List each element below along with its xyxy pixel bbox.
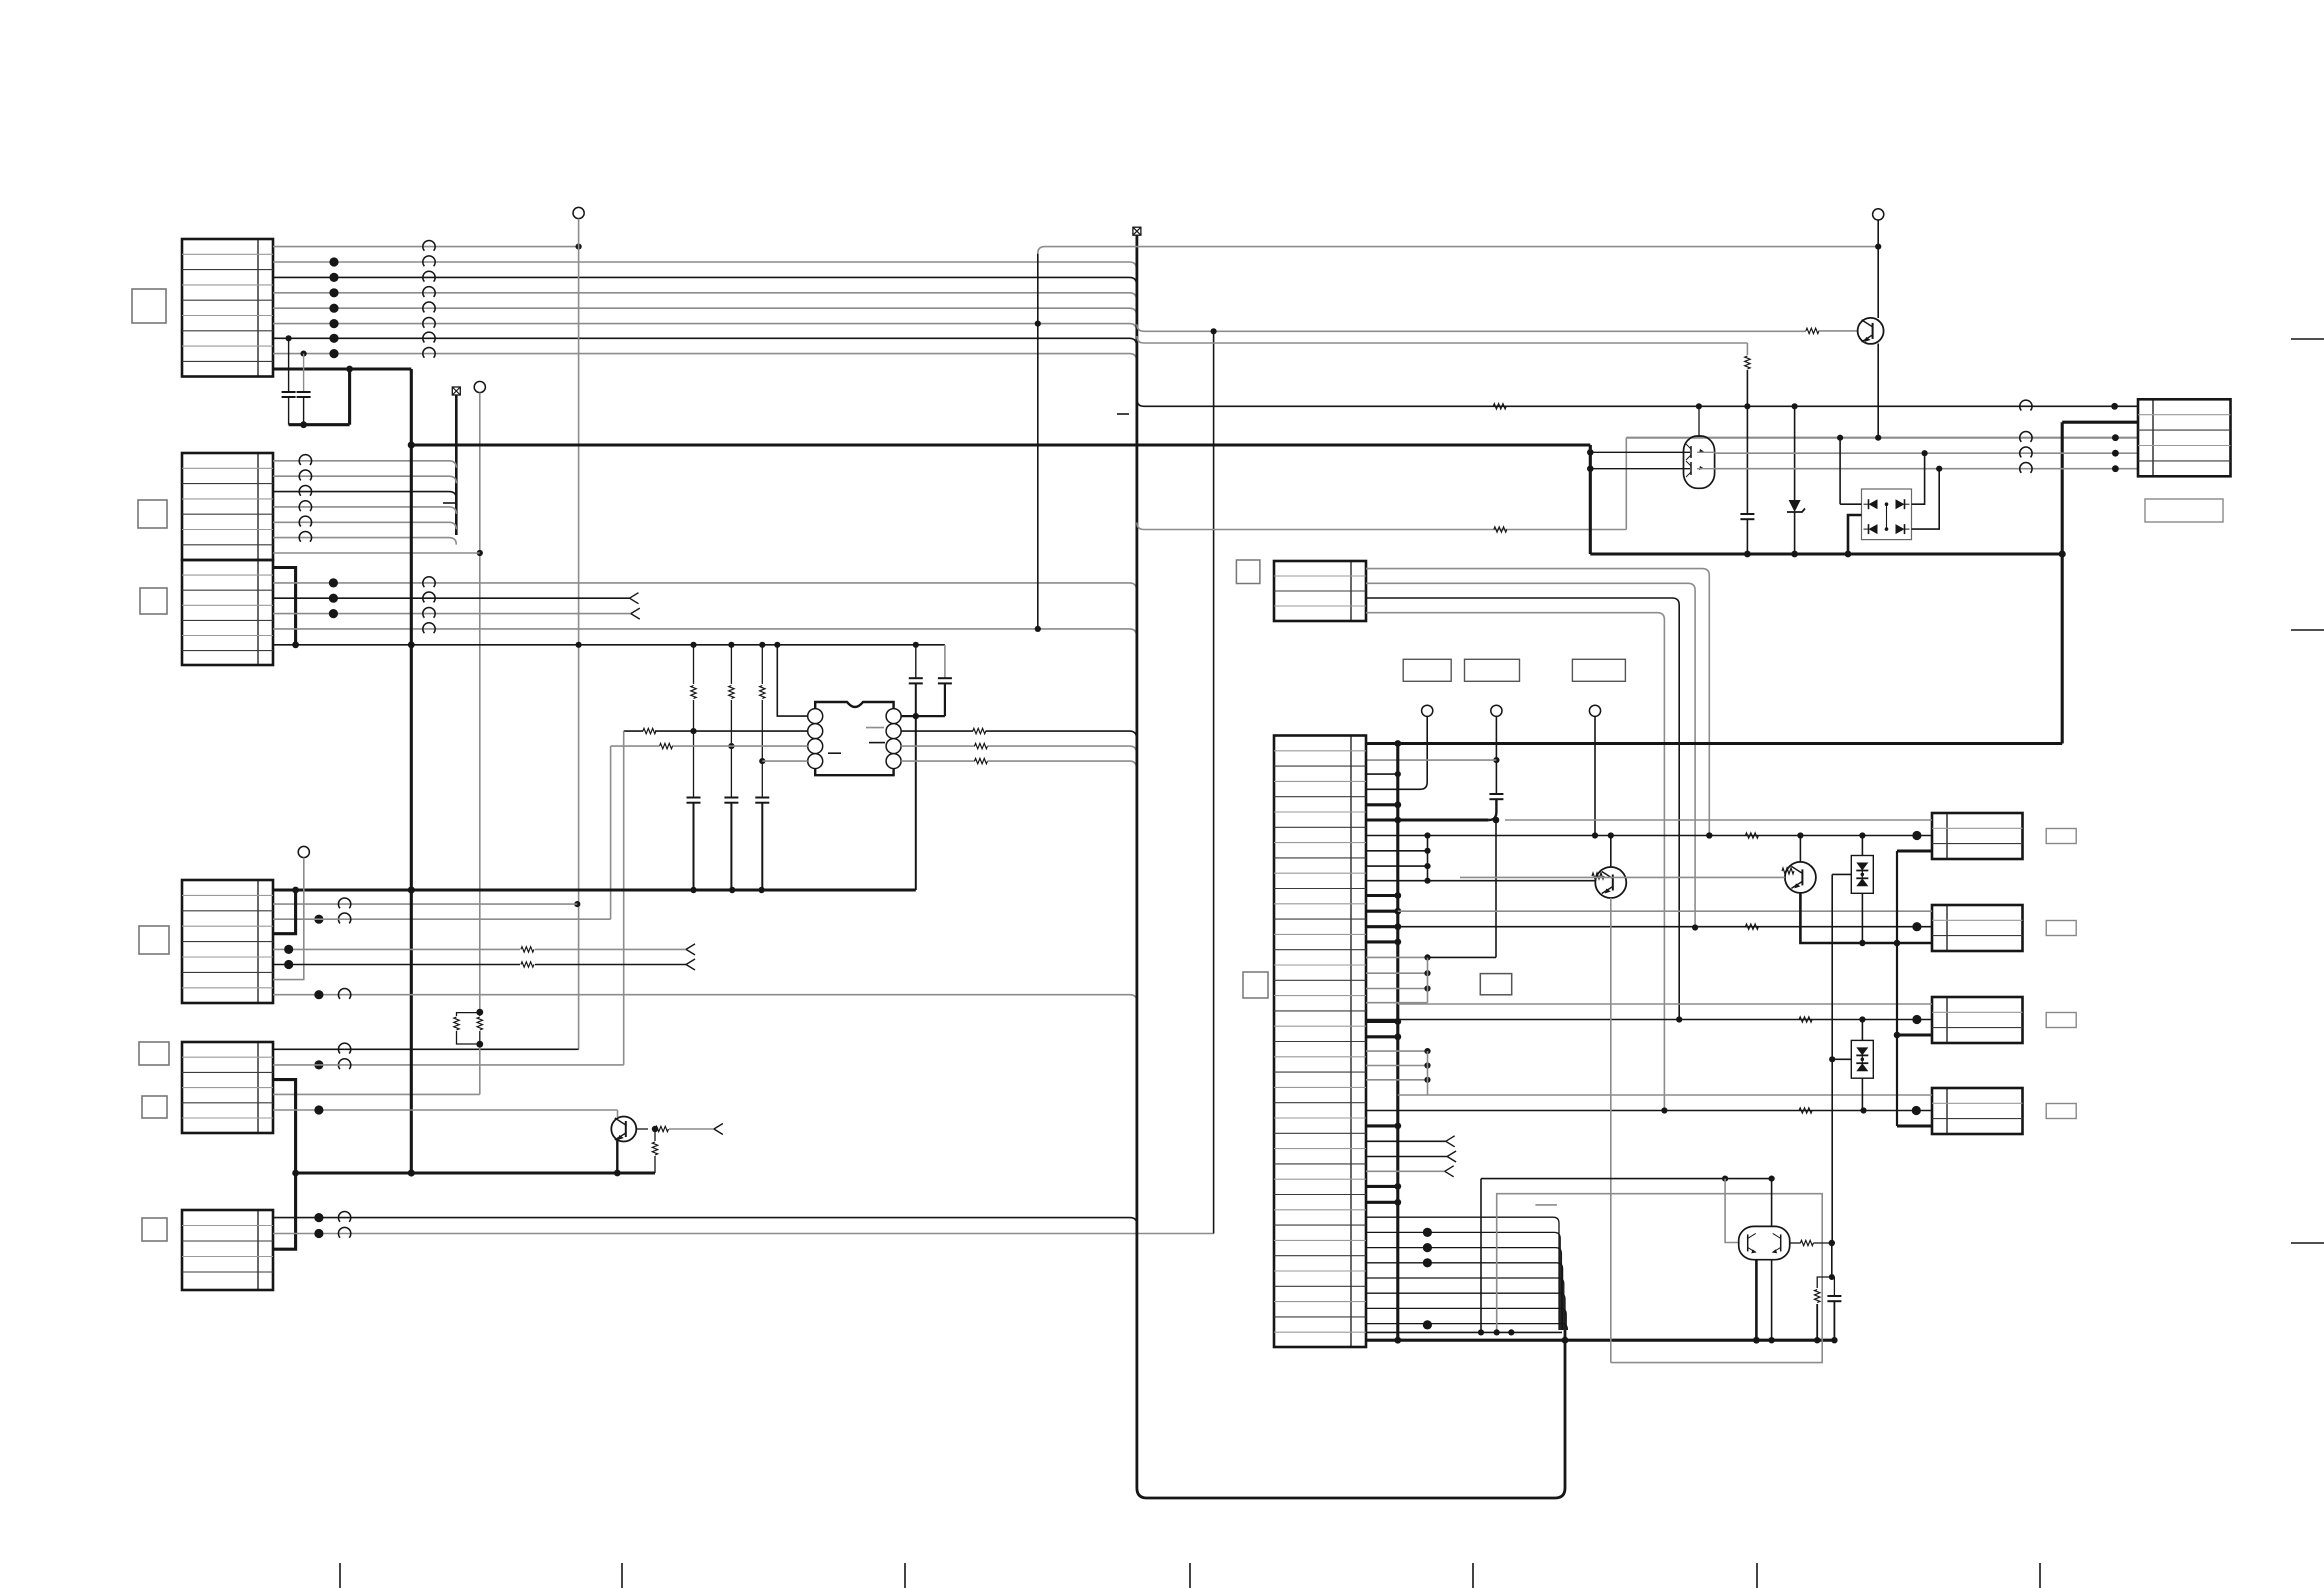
thick stubs CN-C2 rows to collector: [1366, 742, 1398, 745]
transistor Q4: [1595, 867, 1626, 898]
connector CN6 (5-pin): [182, 1210, 273, 1290]
label box CN3: [140, 588, 167, 614]
wire CN6 pin1 into main bus: [273, 1218, 1137, 1225]
bridge bottom-right lead: [1912, 469, 1940, 529]
CN6 thick L-stub: [273, 1173, 296, 1249]
vertical x=1832 (DP mid rail): [1831, 874, 1833, 1243]
resistor R-pullup to thick bus: [654, 1129, 656, 1141]
resistor chain R at x=693.5: [693, 645, 695, 684]
Q6 left feed (x=1725.1): [1725, 1179, 1739, 1243]
resistor chain R at x=762.3: [761, 645, 763, 684]
Q6 bottom thick leg: [1755, 1260, 1758, 1341]
wire U1 pin2 (to CN5 pin2): [655, 730, 808, 732]
arrow rows on CN-C2: [1366, 1140, 1446, 1142]
junction dot CN1-w8 cap tap: [301, 351, 307, 357]
gray loop (Q4 emitter path): [1497, 1194, 1823, 1363]
row group G2 (ties to Y2 node): [1366, 956, 1428, 958]
node ring A (top): [573, 207, 584, 218]
wire CN2 row8 thick stub: [273, 568, 296, 645]
connector CN-C2 (40-pin tall): [1274, 736, 1366, 1348]
transistor Q7: [611, 1117, 636, 1142]
riser x=1213 (CN6 pin2 up to T2 base net): [1213, 331, 1215, 1233]
off-page flag X1 (main bus): [1133, 227, 1141, 235]
label box CN-C: [2046, 1013, 2076, 1028]
CN5 thick L-stub: [273, 1080, 296, 1173]
junction Q5emitter/dbox1: [1859, 940, 1865, 946]
wire U1 pin3 (to CN4 pin3): [672, 745, 808, 747]
Q6 base resistor right: [1790, 1242, 1801, 1244]
riser y529-to-y437: [1625, 438, 1627, 530]
junction thick vert/horiz y=445: [408, 441, 415, 448]
label box near CN-C2: [1243, 972, 1268, 998]
junction D row2/dbox2: [1860, 1107, 1866, 1113]
label box CN5a: [139, 1042, 169, 1065]
junction pin2 wire / chain1: [690, 728, 696, 734]
wire C row2: [1366, 1019, 1932, 1021]
CN-C2 bottom rows bending into bundle: [1366, 1217, 1559, 1330]
label box CN2: [138, 500, 167, 528]
wire W3 bottom row: [1366, 1331, 1562, 1333]
bus tick dash 2: [1117, 413, 1129, 415]
page border tick marks (bottom edge): [339, 1563, 341, 1588]
capacitor C2 (from CN1-w8): [303, 354, 305, 392]
thick bottom bus Y4=1340.2: [1366, 1339, 1834, 1342]
junction y890 cap bottom x=693.5: [690, 887, 696, 893]
junction Q6/rail: [1829, 1240, 1835, 1246]
connector CN-C1 (4-pin): [1274, 561, 1366, 621]
wire CN3 pin4 to bus: [273, 629, 1137, 636]
DP1 bottom lead: [1861, 893, 1863, 943]
thick bus CN4 row1 y=890: [273, 888, 916, 891]
wire row2 stub: [1366, 759, 1496, 761]
junction mystery drop on CN3-w4: [1035, 626, 1041, 632]
junction y890 cap bottom x=761.6: [758, 887, 764, 893]
wire CN1 pin1 to node ring line: [273, 246, 579, 248]
transistor T2: [1858, 318, 1884, 344]
test point TP1: [1422, 705, 1433, 716]
junction Y4/collector: [1394, 1337, 1401, 1344]
junction Y2/riser: [1493, 817, 1500, 824]
Q6 bottom right leg: [1771, 1260, 1773, 1341]
wire net-644 horizontal: [273, 644, 945, 646]
connector CN1 (top-left, 9-pin): [182, 239, 273, 377]
thick corner into CNR1 row2: [2062, 421, 2138, 424]
wire CN1 bottom pin (thick): [273, 367, 411, 370]
thin stub row y=774: [1366, 773, 1398, 775]
diode pair box DP1: [1851, 856, 1873, 894]
wire ring C down to T2 collector: [1877, 220, 1879, 318]
row group G1 (rows to x=1427.5): [1366, 835, 1428, 837]
wire C row1: [1398, 1003, 1932, 1005]
A row3 stub: [1897, 849, 1932, 852]
junction y890 cap bottom x=732.2: [729, 887, 735, 893]
connector CN-D (motor, 3-pin): [1932, 1088, 2023, 1134]
junction pin4 wire / chain3: [759, 758, 765, 764]
dual transistor Q6 (stadium): [1739, 1226, 1790, 1259]
label box LB2: [1465, 659, 1520, 681]
DP1 top lead: [1861, 836, 1863, 856]
label box LB1: [1403, 659, 1451, 681]
test point TP3: [1589, 705, 1600, 716]
connector CN-B (motor, 3-pin): [1932, 905, 2023, 951]
junction net644 x=693.5: [690, 642, 696, 648]
label box CN-B: [2046, 921, 2076, 936]
DP2 bottom lead: [1861, 1078, 1863, 1110]
wire U1 pin5 to bus: [901, 760, 975, 762]
wire U1 pin7 to bus: [901, 730, 973, 732]
bridge top-left lead: [1839, 438, 1841, 505]
antenna/shield stub: [298, 846, 309, 857]
wire CNR1 row3 y=437.7: [1626, 437, 2138, 439]
junction y890 x411: [408, 886, 415, 893]
capacitor chain C at x=731.4: [724, 797, 738, 799]
connector CN3 (7-pin): [182, 560, 273, 665]
junction Q3 base stubs: [1587, 449, 1594, 456]
wire B row2: [1398, 926, 1932, 928]
B row3 junction: [1894, 940, 1901, 947]
node ring B (top): [474, 381, 485, 392]
label box mid-right: [1480, 974, 1511, 995]
wire Q3 out2 to CNR1 row5: [1715, 468, 2138, 470]
resistor chain x=1747 (CN wire7 net): [1746, 343, 1748, 355]
label box CN1: [132, 289, 166, 323]
bridge top-right lead: [1912, 453, 1925, 504]
wires CN1 pins2-8 to main bus with beads and splice dots: [273, 262, 1137, 270]
diode pair box DP2: [1851, 1040, 1873, 1078]
wire U1 pin8 (thick to caps): [901, 715, 945, 717]
connector CN-R1 (5-pin right): [2138, 399, 2231, 476]
wire CN5 pin1 bead: [338, 1043, 350, 1053]
wire bus exit y=529.5: [1137, 523, 1626, 530]
CN4 L-stub thick: [273, 890, 296, 934]
parallel resistor pair R10a/R10b: [476, 1009, 483, 1016]
connector CN-C (motor, 3-pin): [1932, 997, 2023, 1043]
wire D row1: [1398, 1094, 1932, 1096]
connector CN2 (8-pin): [182, 453, 273, 560]
wire T2 base net y=331: [1137, 324, 1806, 331]
zener diode D1 x=1794: [1794, 406, 1796, 500]
junction thick stub on net-644: [292, 641, 299, 648]
D row3 stub: [1897, 1124, 1932, 1127]
thick horizontal net y=445: [411, 443, 1590, 446]
vertical net line A (ring to CN5 pin1): [578, 219, 580, 1050]
capacitor C4: [909, 677, 923, 679]
junction staircase x=1664.4: [1661, 1107, 1667, 1113]
wire RC-chain feed y=343: [1137, 336, 1748, 343]
junctions on y=437.7: [1837, 435, 1843, 441]
TP3 lead to A-row: [1594, 716, 1596, 835]
junction y1173 x411: [408, 1169, 415, 1176]
wire cap return bottom (thick): [289, 423, 350, 426]
thick elbow x=1590: [1589, 445, 1592, 554]
node ring C (top right): [1873, 209, 1884, 220]
W1 left drop: [1480, 1179, 1482, 1333]
rail down to RC: [1831, 1243, 1833, 1277]
capacitor chain C at x=693.5: [687, 797, 701, 799]
bundle thick segment: [1564, 1330, 1567, 1340]
wire U1 pin4: [762, 760, 807, 762]
junction Q7 emitter: [614, 1170, 621, 1177]
C row3 stub: [1897, 1033, 1932, 1036]
junction riser/T2base: [1211, 328, 1217, 334]
junctions on y=406.3: [1696, 403, 1702, 409]
junction y1173 x295: [292, 1170, 299, 1177]
junction A/net-644: [576, 642, 582, 648]
wire Q3 out1 to CNR1 row4: [1715, 452, 2138, 454]
net644 right elbow down: [944, 645, 946, 678]
junctions on y=554: [1744, 551, 1751, 558]
wire U1 pin6 to bus: [901, 745, 975, 747]
capacitor C7 on TP2 line: [1489, 793, 1503, 795]
junction net644 x=731.4: [728, 642, 734, 648]
wire bundle CN2 pins1-6 into flag X2: [455, 395, 458, 535]
wire CN2 pin7: [273, 552, 480, 554]
DP2 top lead: [1861, 1020, 1863, 1041]
capacitor C6 x=1747: [1746, 406, 1748, 514]
RC pair to Y4: [1817, 1277, 1832, 1288]
diode bridge DB1: [1862, 489, 1912, 540]
wire W1 y=1178.6: [1481, 1178, 1772, 1180]
connector CN5 (6-pin): [182, 1042, 273, 1133]
junction staircase x=1679.2: [1676, 1016, 1682, 1022]
main thick vertical bus x=411: [410, 369, 413, 1173]
drop from y246 corner: [1037, 254, 1039, 629]
connector CN4 (8-pin): [182, 880, 273, 1003]
wire CN3 pin2 with arrow: [273, 597, 630, 599]
junction A row2 dots: [1608, 832, 1614, 838]
junction TP2/row2: [1493, 757, 1499, 763]
junction y890 x295: [292, 887, 299, 894]
TP1 lead to row4: [1366, 716, 1427, 789]
thick bus Y1=743.5 (to right): [1398, 742, 2062, 745]
wire CN4 pin5 with resistor and arrow: [273, 948, 520, 950]
capacitor C5: [938, 677, 952, 679]
wire A row2: [1428, 835, 1933, 837]
label box CN-D: [2046, 1104, 2076, 1119]
bus tick dash: [443, 502, 455, 504]
test point TP2: [1491, 705, 1502, 716]
wire CN4 pin6 with resistor and arrow: [273, 964, 520, 966]
junction Y4/bundle: [1562, 1337, 1569, 1344]
thick vertical x=2062: [2061, 422, 2064, 743]
thick collector x=1897: [1896, 851, 1898, 1126]
Q7 output node: [652, 1126, 658, 1132]
junction w6/drop: [1035, 321, 1041, 327]
splice dots on bottom rows: [1423, 1228, 1432, 1237]
TP2 lead: [1495, 716, 1497, 794]
wire CN3 pin3 with arrow: [273, 613, 631, 615]
row group G3: [1366, 1050, 1428, 1052]
label box CN6: [142, 1218, 167, 1241]
off-page flag X2 (CN2 bundle): [452, 387, 460, 395]
junction CN1 thick bottom: [346, 366, 353, 373]
junction pin3 wire / chain2: [728, 743, 734, 749]
thick bus y=554: [1590, 552, 2062, 555]
wire CN5 pin5 (Q7 base): [273, 1109, 618, 1111]
junction net644 x=915.8: [913, 642, 919, 648]
main bus vertical + bottom loop: [1137, 236, 1565, 1499]
Q5 collector up: [1799, 836, 1801, 863]
vertical net line B (ring to CN5 pin4): [479, 393, 481, 1013]
junction staircase x=1695.1: [1692, 924, 1698, 930]
junction staircase x=1709.3: [1706, 832, 1712, 838]
connector CN-A (motor, 3-pin): [1932, 813, 2023, 859]
Q5 emitter thick to B row3: [1800, 893, 1932, 943]
thick bus CN5/CN6 y=1173: [296, 1171, 655, 1174]
label box CN5b: [142, 1096, 167, 1118]
junction dot CN1-w7 cap tap: [286, 335, 292, 341]
gray dash near bundle: [1535, 1204, 1557, 1206]
junction ringC/y246: [1875, 244, 1881, 250]
bridge bottom-left thick lead: [1848, 515, 1862, 554]
thick bus Y2=820 to cap: [1366, 818, 1488, 821]
DP1 mid-left lead: [1832, 873, 1851, 875]
junction pin8/vertical: [913, 713, 919, 719]
junction A/CN4-r2: [574, 901, 580, 907]
wire CN4 pin2 with bead: [273, 903, 577, 905]
resistor chain R at x=731.4: [730, 645, 732, 684]
junction C row2/dbox2: [1859, 1016, 1865, 1022]
junction CN1-w1/ring-line: [576, 244, 582, 250]
wires CN-C1 to motor rows (staircase): [1366, 569, 1709, 836]
wire U1 pin1: [777, 645, 807, 716]
junction bridge br: [1936, 466, 1942, 472]
label box LB3: [1572, 659, 1625, 681]
Q4 collector up: [1610, 836, 1612, 868]
junction net644/main thick vert: [408, 641, 415, 648]
Q6 top feed (x=1771.6): [1771, 1179, 1773, 1227]
wire CN4 pin8 to bus: [273, 995, 1137, 1002]
wire A row1: [1505, 819, 1932, 821]
junction bridge tr: [1922, 450, 1928, 456]
wire ring-C line y=246.6: [1038, 247, 1878, 254]
IC U1 (8-pin op-amp, notched body): [815, 702, 893, 775]
junction net644 x=777.3: [774, 642, 780, 648]
dual transistor Q3 (stadium): [1684, 436, 1715, 488]
capacitor C1 (from CN1-w7): [288, 338, 290, 392]
Q4 emitter down (gray loop start): [1610, 898, 1612, 1363]
page border tick marks (right edge): [2291, 338, 2324, 340]
transistor Q5: [1785, 862, 1816, 893]
wire bus to CNR1 row1 y=406.3: [1137, 399, 2138, 406]
label box near CN-C1: [1236, 560, 1260, 584]
DP2 mid-left lead: [1832, 1058, 1851, 1060]
Q7 output resistor and arrow: [636, 1128, 648, 1130]
junction net644 x=762.3: [759, 642, 765, 648]
wire B row1: [1398, 910, 1932, 912]
capacitor chain C at x=762.3: [755, 797, 769, 799]
label box CN-A: [2046, 829, 2076, 844]
wire CN3 pin1 to bus: [273, 583, 1137, 590]
wire CN6 pin2 to riser x=1213: [273, 1233, 1214, 1235]
thick vertical collector x=1398: [1396, 744, 1399, 1341]
junction cap return: [300, 421, 307, 428]
label box CN4: [139, 926, 169, 954]
junction B/CN2-w7: [477, 550, 483, 556]
wire thick drop to cap return: [348, 369, 351, 425]
wire D row2: [1366, 1110, 1932, 1112]
Q7 emitter to thick bus: [616, 1140, 618, 1173]
label box CN-R1: [2145, 499, 2223, 522]
